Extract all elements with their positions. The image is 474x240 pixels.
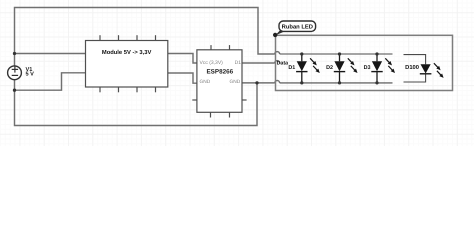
svg-text:D2: D2 (326, 65, 333, 71)
svg-text:GND: GND (230, 79, 241, 85)
wire D100 segment top (404, 55, 426, 65)
wire LED strip bottom rail (GND bus) (280, 82, 393, 84)
callout label Ruban LED (273, 21, 316, 37)
wire V1 minus down and ground bus (15, 80, 258, 126)
LED D2 (326, 52, 357, 84)
svg-text:5 V: 5 V (26, 72, 35, 78)
wire V1 minus to module pin2 (15, 73, 86, 90)
wire D100 segment bottom (404, 74, 426, 82)
wire ESP D1 to LED strip Data (242, 61, 280, 63)
svg-text:D1: D1 (288, 65, 295, 71)
wire +5V: V1 top across to LED strip (15, 8, 280, 66)
svg-text:Vcc (3,3V): Vcc (3,3V) (200, 60, 224, 66)
wire module GND out to ESP GND (168, 73, 197, 83)
grid (decorative) (0, 0, 474, 146)
callout pointer tail (275, 30, 285, 35)
svg-text:Data: Data (277, 60, 289, 66)
wire V1 plus to module pin1 (15, 53, 86, 55)
callout bubble (279, 21, 316, 31)
svg-text:D3: D3 (364, 65, 371, 71)
module M1: 5V to 3,3V converter block (86, 35, 168, 92)
LED D1 (288, 52, 319, 84)
LED D100 (405, 63, 443, 78)
LED D3 (364, 52, 395, 84)
LED strip enclosure box (276, 35, 453, 90)
svg-text:D100: D100 (405, 64, 419, 71)
svg-text:Module 5V -> 3,3V: Module 5V -> 3,3V (102, 49, 152, 56)
wire module 3,3V out to ESP Vcc (168, 54, 197, 64)
node junction ground bus / ESP GND (255, 81, 258, 84)
svg-text:D1: D1 (235, 60, 242, 66)
callout anchor dot on box corner (273, 33, 277, 37)
node junction V1 top (13, 52, 16, 55)
IC U1: ESP8266 module (192, 45, 246, 117)
svg-text:Ruban LED: Ruban LED (282, 23, 313, 30)
wire ESP GND to LED strip (242, 80, 280, 82)
voltage source V1 (8, 66, 35, 80)
svg-text:ESP8266: ESP8266 (206, 69, 233, 76)
wire LED strip top rail (+5V bus) (280, 53, 393, 55)
node junction V1 bottom (13, 89, 16, 92)
svg-text:GND: GND (200, 79, 211, 85)
